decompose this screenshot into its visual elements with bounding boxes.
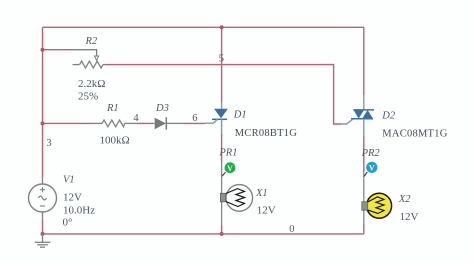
node 0	[289, 224, 294, 235]
value 25%	[78, 91, 98, 103]
svg-text:PR1: PR1	[218, 148, 237, 159]
svg-text:X2: X2	[398, 194, 411, 205]
value 2.2kOhm	[78, 78, 105, 90]
svg-text:R1: R1	[106, 103, 119, 114]
label PR2	[361, 148, 381, 159]
svg-text:0°: 0°	[63, 217, 73, 229]
wire net3 left rail lower (V1 minus to ground)	[42, 220, 44, 234]
SCR D1	[205, 102, 228, 134]
label D3	[155, 103, 169, 114]
svg-text:V: V	[227, 164, 233, 173]
wire net5 top rail	[43, 26, 364, 28]
junction at ground	[41, 232, 45, 236]
svg-text:MCR08BT1G: MCR08BT1G	[235, 128, 298, 139]
wire net3 left rail upper	[42, 27, 44, 177]
value V1 0deg	[63, 217, 73, 229]
wire net3 branch to R2 wiper	[43, 49, 73, 51]
value V1 10.0Hz	[63, 205, 95, 217]
junction at top rail / D1 column	[220, 25, 224, 29]
junction at R1 branch	[41, 121, 45, 125]
svg-text:R2: R2	[85, 36, 98, 47]
svg-text:12V: 12V	[257, 205, 276, 217]
label R1	[106, 103, 119, 114]
label PR1	[218, 148, 237, 159]
resistor R1	[94, 120, 137, 127]
triac D2	[341, 95, 374, 137]
node 6	[192, 113, 197, 124]
svg-text:MAC08MT1G: MAC08MT1G	[382, 129, 447, 140]
svg-text:3: 3	[46, 138, 51, 149]
svg-text:0: 0	[289, 224, 294, 235]
AC source V1	[29, 177, 57, 220]
part number MCR08BT1G	[235, 128, 298, 139]
svg-text:X1: X1	[255, 188, 268, 199]
wire net3 branch to R1	[43, 122, 94, 124]
svg-text:4: 4	[133, 113, 139, 124]
node 4	[133, 113, 139, 124]
probe PR1	[222, 162, 236, 176]
label X1	[255, 188, 268, 199]
svg-text:D1: D1	[233, 110, 247, 121]
svg-text:V1: V1	[63, 175, 75, 186]
node 5	[219, 54, 224, 65]
wire net0 bottom rail	[43, 233, 364, 235]
svg-text:D2: D2	[381, 111, 396, 122]
svg-text:10.0Hz: 10.0Hz	[63, 205, 95, 217]
lamp X1	[220, 185, 252, 212]
wire D2 bottom down	[363, 136, 365, 234]
wire net5 right drop to D2	[363, 27, 365, 94]
value X1 12V	[257, 205, 276, 217]
node 3	[46, 138, 51, 149]
svg-text:V: V	[369, 163, 375, 172]
diode D3	[155, 117, 183, 129]
svg-text:12V: 12V	[400, 211, 419, 223]
part number MAC08MT1G	[382, 129, 447, 140]
svg-text:100kΩ: 100kΩ	[100, 135, 130, 147]
label D1	[233, 110, 247, 121]
svg-text:D3: D3	[155, 103, 169, 114]
wire net6 D3 to D1 gate	[183, 122, 205, 124]
probe PR2	[364, 162, 377, 177]
junction at bottom rail / D1 column	[220, 232, 224, 236]
wire net4 R1 to D3	[137, 122, 155, 124]
svg-text:6: 6	[192, 113, 197, 124]
wire net5 drop to D1 anode	[221, 27, 223, 102]
label V1	[63, 175, 75, 186]
svg-text:25%: 25%	[78, 91, 98, 103]
svg-text:12V: 12V	[63, 192, 82, 204]
svg-text:PR2: PR2	[361, 148, 381, 159]
ground	[35, 234, 51, 247]
value X2 12V	[400, 211, 419, 223]
label D2	[381, 111, 396, 122]
junction at R2 wiper branch	[41, 48, 45, 52]
value 100kOhm	[100, 135, 130, 147]
potentiometer R2	[72, 50, 106, 68]
wire D1 cathode down	[221, 134, 223, 234]
wire R2 output to D2 gate	[106, 65, 342, 124]
label X2	[398, 194, 411, 205]
label R2	[85, 36, 98, 47]
value V1 12V	[63, 192, 82, 204]
svg-text:5: 5	[219, 54, 224, 65]
lamp X2 (lit)	[362, 193, 392, 218]
svg-text:2.2kΩ: 2.2kΩ	[78, 78, 105, 90]
